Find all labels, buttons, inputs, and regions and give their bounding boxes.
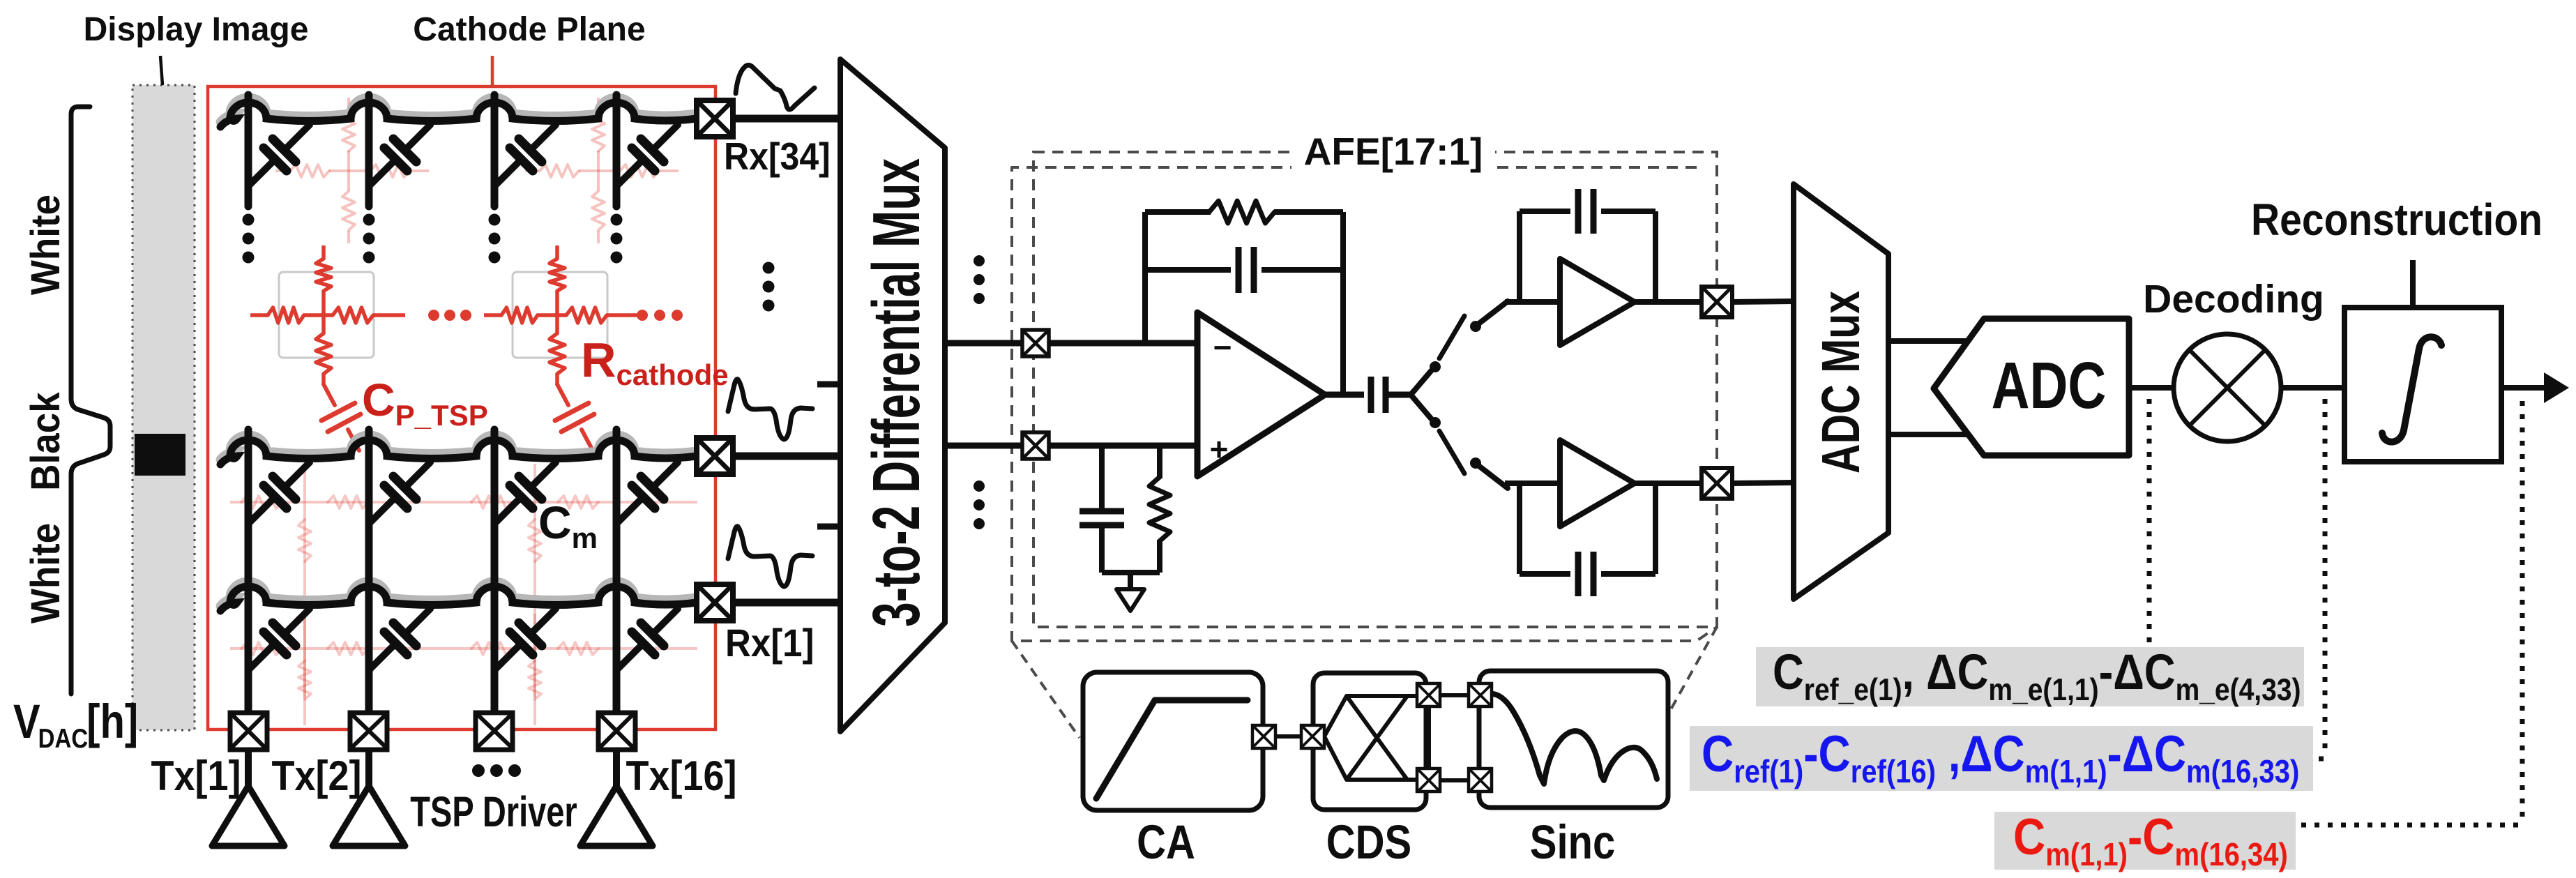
svg-text:TSP Driver: TSP Driver bbox=[410, 788, 577, 835]
svg-text:Decoding: Decoding bbox=[2143, 277, 2324, 321]
svg-text:Rx[34]: Rx[34] bbox=[724, 135, 831, 179]
svg-text:CA: CA bbox=[1137, 817, 1195, 870]
svg-text:Cathode Plane: Cathode Plane bbox=[413, 11, 645, 48]
svg-text:ADC Mux: ADC Mux bbox=[1812, 291, 1871, 474]
svg-text:−: − bbox=[1213, 329, 1232, 365]
svg-text:Display Image: Display Image bbox=[84, 11, 309, 48]
svg-text:Tx[16]: Tx[16] bbox=[626, 752, 736, 800]
svg-text:Tx[1]: Tx[1] bbox=[151, 752, 241, 800]
svg-text:Rx[1]: Rx[1] bbox=[725, 621, 815, 665]
svg-text:Reconstruction: Reconstruction bbox=[2251, 195, 2543, 245]
svg-text:White: White bbox=[23, 195, 68, 295]
svg-text:Tx[2]: Tx[2] bbox=[271, 752, 361, 800]
svg-text:AFE[17:1]: AFE[17:1] bbox=[1304, 130, 1483, 173]
svg-text:White: White bbox=[23, 523, 68, 623]
svg-text:+: + bbox=[1210, 431, 1229, 467]
svg-text:CDS: CDS bbox=[1326, 817, 1411, 870]
svg-text:3-to-2 Differential Mux: 3-to-2 Differential Mux bbox=[859, 158, 934, 627]
svg-text:ADC: ADC bbox=[1992, 349, 2107, 423]
svg-text:Black: Black bbox=[23, 391, 68, 490]
svg-text:Sinc: Sinc bbox=[1530, 817, 1615, 870]
